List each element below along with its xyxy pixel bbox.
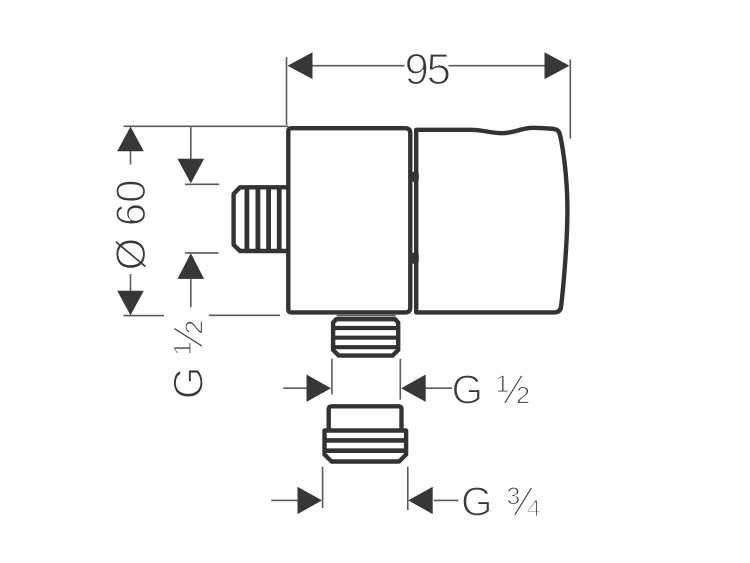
svg-text:G ½: G ½ xyxy=(165,320,212,399)
svg-text:95: 95 xyxy=(405,45,450,94)
svg-text:G ¾: G ¾ xyxy=(461,479,541,525)
svg-text:G ½: G ½ xyxy=(452,367,532,413)
svg-text:Ø 60: Ø 60 xyxy=(107,179,154,270)
